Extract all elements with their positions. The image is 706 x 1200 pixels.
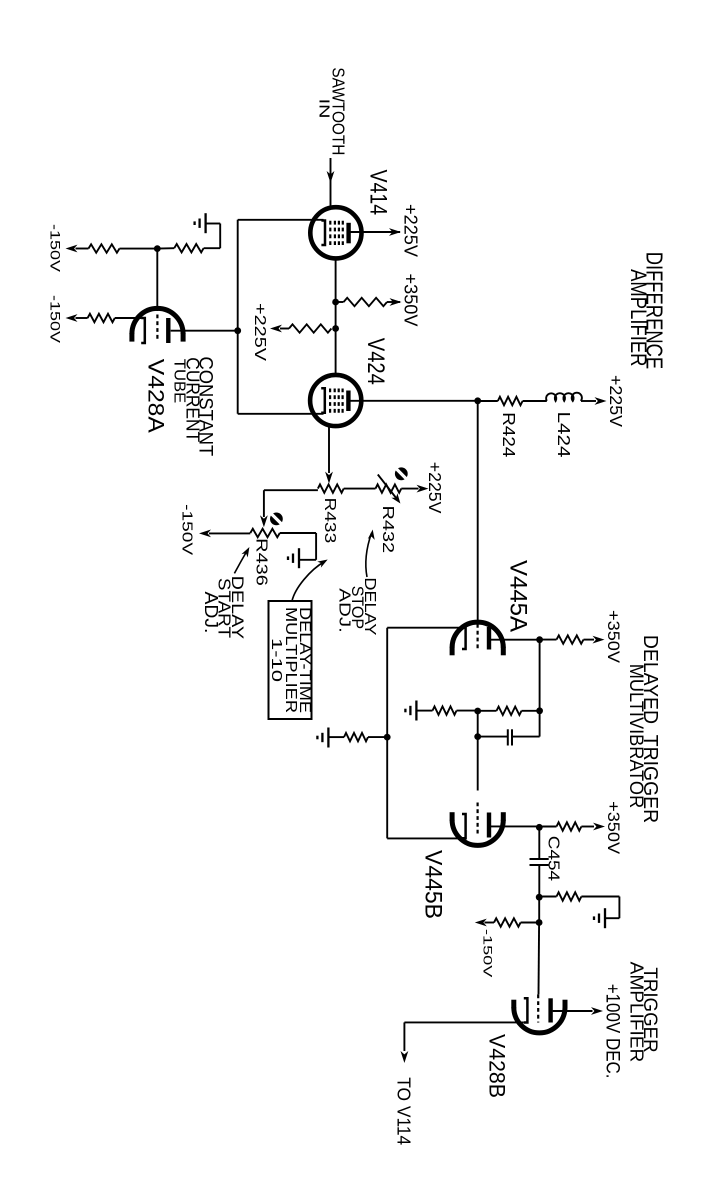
svg-text:+100V DEC.: +100V DEC. (602, 984, 624, 1079)
svg-text:MULTIVIBRATOR: MULTIVIBRATOR (625, 664, 646, 808)
V445A plate (487, 627, 491, 650)
svg-text:+225V: +225V (425, 462, 445, 514)
svg-text:L424: L424 (554, 412, 574, 459)
node V445A plate junction (536, 636, 543, 643)
resistor R424 (478, 400, 498, 402)
wire R432 to +225V (401, 488, 418, 490)
svg-text:+225V: +225V (606, 375, 626, 427)
wire V445B plate (491, 825, 539, 827)
wire V424 plate (350, 400, 478, 402)
resistor cross-coupling (plate to grid bus) (522, 710, 540, 712)
capacitor C454 (530, 858, 549, 860)
tube V414 envelope (310, 207, 361, 258)
node V445B plate junction (536, 824, 543, 831)
tube V424 envelope (310, 375, 361, 426)
wire V428A cathode to -150V (115, 317, 142, 319)
svg-text:ADJ.: ADJ. (201, 592, 221, 634)
wire R436 top to ground (280, 532, 316, 534)
resistor grid to -150V (down) (120, 248, 158, 250)
wire node D to E (538, 897, 540, 922)
resistor grid leak to ground (457, 710, 478, 712)
tube V428B envelope (514, 1007, 565, 1033)
svg-text:V428B: V428B (484, 1034, 509, 1098)
svg-text:AMPLIFIER: AMPLIFIER (627, 962, 647, 1063)
wire jog to ground (219, 224, 221, 249)
ground (cathode rail) (317, 728, 328, 748)
tube V445A envelope (452, 622, 503, 648)
V424 grids (342, 389, 344, 414)
svg-text:R432: R432 (379, 506, 396, 554)
wire L424 to +225V (581, 400, 596, 402)
wire cathode bus (237, 220, 239, 414)
resistor node E to -150V (521, 922, 540, 924)
V414 plate (346, 223, 350, 244)
screwdriver adjust symbol R436 (270, 513, 283, 526)
node V428A grid junction (154, 245, 161, 252)
wire R433 bottom to R436 wiper (264, 489, 318, 491)
node junction V428A plate tap (234, 327, 241, 334)
svg-text:V445B: V445B (419, 850, 446, 919)
ground (V428A grid divider) (195, 213, 206, 233)
svg-text:R424: R424 (499, 412, 519, 457)
wire V414 cathode (238, 219, 324, 221)
wire plate node to cross coupling (539, 640, 541, 711)
resistor node D to ground (539, 896, 556, 898)
node junction E (536, 919, 543, 926)
svg-text:-150V: -150V (480, 929, 494, 979)
resistor screen to +350V (336, 301, 344, 303)
V424 cathode (321, 388, 325, 413)
svg-text:V424: V424 (362, 338, 388, 385)
node junction screen bus (332, 299, 339, 306)
wire grid V428B (538, 923, 541, 995)
svg-text:+225V: +225V (251, 303, 268, 361)
wire plate node to C454 (538, 827, 540, 858)
V428B grid (537, 994, 539, 1022)
V428A grid (156, 315, 158, 342)
svg-text:-150V: -150V (46, 295, 62, 344)
wire V424 grid to R433 wiper (328, 426, 330, 473)
pointer arrow delay stop adj to R432 (366, 533, 372, 577)
resistor cathode rail to ground (368, 736, 387, 738)
potentiometer R436 delay start adj (250, 529, 280, 537)
capacitor cross-coupling (539, 711, 541, 737)
svg-text:R433: R433 (321, 498, 338, 544)
svg-text:+225V: +225V (401, 204, 422, 258)
tube V445B envelope (452, 820, 503, 846)
wire V445A plate (491, 639, 540, 641)
V445A grid (477, 624, 479, 649)
svg-text:AMPLIFIER: AMPLIFIER (626, 269, 651, 366)
svg-text:V428A: V428A (144, 359, 169, 434)
V424 plate (346, 391, 350, 412)
svg-text:+350V: +350V (401, 274, 422, 328)
svg-text:V414: V414 (365, 170, 391, 216)
potentiometer R433 delay-time multiplier (318, 484, 344, 492)
svg-text:-150V: -150V (46, 224, 62, 273)
svg-text:+350V: +350V (604, 610, 623, 664)
svg-text:ADJ.: ADJ. (336, 588, 353, 633)
wire V428B cathode output (404, 1021, 523, 1023)
inductor L424 (523, 400, 547, 402)
resistor V445A plate load to +350V (540, 639, 557, 641)
wire V428A grid (156, 249, 158, 311)
V445B plate (487, 813, 491, 838)
svg-text:R436: R436 (253, 538, 270, 586)
svg-text:C454: C454 (545, 836, 562, 881)
wire V414 plate to +225V (351, 231, 401, 233)
svg-text:TUBE: TUBE (171, 359, 188, 403)
svg-text:TO V114: TO V114 (394, 1077, 415, 1145)
node junction D (536, 894, 543, 901)
V428A plate (166, 318, 170, 343)
box DELAY-TIME MULTIPLIER 1-10 (269, 601, 312, 719)
wire V424 cathode (238, 413, 324, 415)
wire V428A plate to cathode bus (171, 330, 238, 332)
V414 cathode (321, 221, 325, 246)
tube V428A envelope (132, 308, 183, 334)
svg-text:V445A: V445A (504, 560, 531, 632)
node grid bus junction C (474, 733, 481, 740)
wire cathode rail V445A (387, 627, 462, 629)
ground (R436) (288, 548, 299, 568)
V428B cathode (524, 998, 528, 1022)
node grid bus junction A (474, 708, 481, 715)
svg-text:-150V: -150V (178, 504, 194, 555)
ground (V428B grid divider) (594, 908, 605, 928)
svg-text:IN: IN (315, 99, 332, 119)
ground (V445 grid leak) (405, 701, 416, 721)
potentiometer R432 delay stop adj (376, 484, 402, 492)
pointer arrow delay start adj to R436 (234, 550, 247, 573)
wire grid bus V424 plate to V445A grid (477, 401, 479, 622)
pointer arrow box to R433 (292, 562, 325, 602)
svg-text:1-10: 1-10 (268, 638, 284, 682)
svg-text:+350V: +350V (604, 801, 623, 855)
node V424 plate junction (474, 397, 481, 404)
wire R436 bottom to -150V (209, 532, 250, 534)
wire R433 top to R432 (344, 488, 376, 490)
V428A cathode (141, 318, 145, 343)
resistor grid to ground (up) (157, 247, 174, 249)
wire sawtooth input (330, 158, 332, 207)
wire V428B plate to +100V (553, 1010, 593, 1012)
node cathode rail junction (384, 734, 391, 741)
V428B plate (548, 998, 552, 1022)
V445B grid (477, 803, 479, 836)
wire V414 screen to V424 screen (335, 259, 337, 375)
resistor screen to +225V (down) (289, 324, 331, 332)
V445B cathode (462, 814, 466, 838)
resistor V445B plate load to +350V (539, 826, 556, 828)
screwdriver adjust symbol R432 (395, 467, 408, 480)
wire grid bus A to C (477, 711, 479, 791)
V445A cathode (462, 628, 466, 650)
V414 grids (342, 221, 344, 246)
